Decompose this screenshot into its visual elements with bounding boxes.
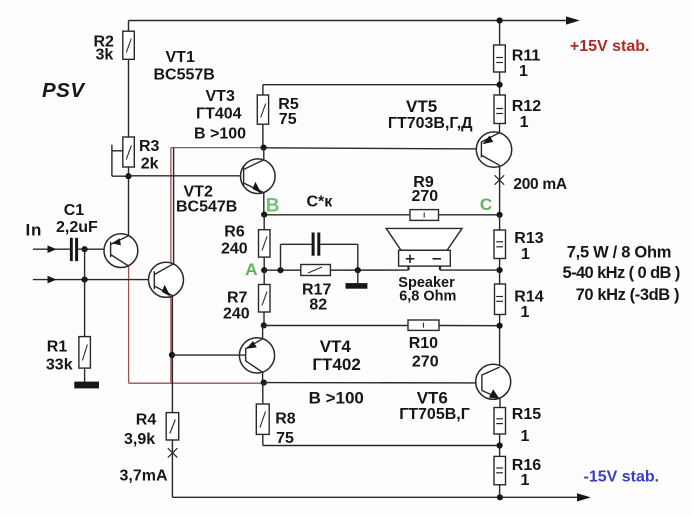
- svg-text:С*к: С*к: [307, 194, 334, 211]
- resistor R10: [408, 320, 439, 330]
- svg-text:BC547B: BC547B: [176, 199, 237, 216]
- svg-text:In: In: [26, 220, 43, 239]
- wire: VT4 emitter node down to R8: [262, 383, 264, 404]
- svg-text:1: 1: [521, 304, 530, 321]
- svg-text:BC557B: BC557B: [154, 66, 215, 83]
- svg-text:ГТ402: ГТ402: [312, 355, 360, 374]
- wire: R2 top stub from rail: [128, 21, 130, 32]
- svg-text:270: 270: [412, 188, 439, 205]
- resistor R15: [494, 408, 506, 435]
- svg-text:В >100: В >100: [309, 388, 364, 407]
- wire: feedback line red vertical from VT2 collector column: [129, 148, 264, 384]
- x mark 200mA: [495, 175, 505, 184]
- speaker cone: [386, 228, 462, 250]
- svg-text:70 kHz (-3dB ): 70 kHz (-3dB ): [576, 286, 680, 304]
- wire: VT3 emitter to node B: [263, 193, 265, 215]
- wire: VT5 base line: [264, 148, 482, 149]
- resistor R14: [495, 284, 506, 315]
- transistor VT5 (GT703): [476, 132, 511, 167]
- wire: node A row to right column: [264, 269, 408, 271]
- wire: R11 to R12: [499, 72, 501, 95]
- ground bar below R1: [74, 382, 99, 389]
- svg-text:PSV: PSV: [42, 79, 86, 102]
- svg-text:1: 1: [521, 472, 530, 489]
- svg-text:C: C: [480, 195, 492, 214]
- node R17 left: [277, 267, 283, 273]
- wire: input line 1: [33, 248, 70, 250]
- wire: VT4 collector row to R10 and right column: [264, 325, 408, 327]
- wire: R3 node to VT3 base: [129, 175, 244, 177]
- svg-text:VT4: VT4: [320, 337, 352, 356]
- svg-text:ГТ404: ГТ404: [196, 105, 242, 122]
- svg-text:240: 240: [223, 306, 250, 323]
- node below R13: [497, 267, 503, 273]
- svg-text:B: B: [266, 195, 280, 216]
- wire: B to R6: [263, 215, 265, 230]
- resistor R7: [259, 285, 271, 313]
- node below R14: [497, 323, 503, 329]
- wire: R10 to right column: [439, 325, 500, 327]
- svg-text:R13: R13: [514, 230, 543, 247]
- svg-text:R7: R7: [227, 290, 248, 307]
- node VT4 collector: [261, 322, 267, 328]
- wire: R5 bottom to node: [262, 124, 264, 147]
- wire: R13 to node: [499, 259, 501, 285]
- node top rail: [497, 17, 503, 23]
- svg-text:R10: R10: [409, 335, 438, 352]
- wire: VT2 emitter down to R4: [171, 296, 173, 413]
- wire: R4 bottom to x mark: [171, 440, 173, 497]
- capacitor C*k plates: [312, 233, 315, 256]
- right column: rail to R11: [499, 21, 501, 46]
- svg-text:5-40 kHz ( 0 dB ): 5-40 kHz ( 0 dB ): [563, 264, 680, 282]
- capacitor C*k branch left leg: [280, 244, 282, 270]
- svg-text:R4: R4: [136, 412, 157, 429]
- node R11/R12: [497, 82, 503, 88]
- wire: C1 to VT1 base: [78, 248, 111, 250]
- resistor R9: [410, 210, 439, 221]
- wire: R8 bottom to R15 node: [262, 434, 264, 445]
- wire: input line 2: [33, 279, 154, 281]
- svg-text:R15: R15: [512, 406, 541, 423]
- wire: R1 to ground: [84, 368, 86, 382]
- svg-text:R3: R3: [139, 138, 160, 155]
- transistor VT2 (BC547B): [149, 148, 184, 298]
- wire: VT6 emitter to R15: [499, 399, 501, 408]
- svg-text:A: A: [245, 260, 257, 279]
- svg-text:VT5: VT5: [406, 97, 437, 116]
- wire: R3 wiper: [111, 145, 113, 158]
- transistor VT3 (GT404): [240, 159, 275, 194]
- speaker legs: [407, 266, 409, 270]
- wire: VT4 base line: [172, 354, 246, 356]
- wire: top rail arrow: [566, 16, 580, 24]
- wire: R15 to R16: [499, 434, 501, 456]
- wire: -15V bottom rail: [172, 496, 578, 498]
- wire: R14 to VT6: [499, 315, 501, 368]
- svg-text:+15V stab.: +15V stab.: [570, 38, 650, 55]
- wire: VT3 collector up to node: [263, 148, 265, 160]
- wire: upper horizontal from R5 top to R11/R12 node: [263, 84, 500, 86]
- resistor R13: [494, 230, 506, 259]
- svg-text:2k: 2k: [141, 155, 159, 172]
- svg-text:ГТ703В,Г,Д: ГТ703В,Г,Д: [388, 115, 473, 132]
- svg-text:R8: R8: [275, 411, 296, 428]
- transistor VT6 (GT705): [476, 364, 511, 399]
- ground bar at R17: [346, 283, 368, 289]
- resistor R2: [123, 31, 135, 59]
- svg-text:VT6: VT6: [417, 389, 448, 408]
- svg-text:1: 1: [519, 63, 528, 80]
- resistor R5: [257, 95, 268, 124]
- svg-text:VT1: VT1: [166, 49, 195, 66]
- svg-text:R14: R14: [514, 288, 543, 305]
- node bottom rail: [497, 494, 503, 500]
- resistor R11: [494, 45, 506, 72]
- svg-text:240: 240: [221, 240, 248, 257]
- wire: A to R7: [263, 270, 265, 284]
- node below R15: [497, 442, 503, 448]
- svg-text:3,9k: 3,9k: [124, 431, 155, 448]
- resistor R6: [259, 230, 271, 257]
- svg-text:200 mA: 200 mA: [513, 176, 566, 193]
- svg-text:-15V stab.: -15V stab.: [584, 468, 660, 485]
- wire: stub to ground bar: [357, 270, 359, 283]
- resistor R3: [123, 137, 135, 167]
- resistor R12: [494, 95, 505, 124]
- svg-text:6,8 Ohm: 6,8 Ohm: [399, 289, 456, 305]
- wire: VT5 collector to x mark and node C: [499, 165, 501, 215]
- resistor R16: [494, 456, 506, 484]
- svg-text:R6: R6: [224, 224, 245, 241]
- svg-text:C1: C1: [64, 202, 85, 219]
- capacitor C*k right leg: [320, 243, 358, 245]
- wire: R3 bottom to VT1: [128, 167, 130, 236]
- svg-text:82: 82: [309, 296, 327, 313]
- speaker minus terminal: [433, 258, 442, 260]
- wire: node B to R9: [264, 214, 410, 216]
- node VT4 base junction: [169, 352, 175, 358]
- node B junction: [261, 212, 267, 218]
- svg-text:7,5 W / 8 Ohm: 7,5 W / 8 Ohm: [567, 244, 671, 262]
- svg-text:33k: 33k: [46, 357, 73, 374]
- resistor R1: [79, 337, 91, 369]
- node A junction: [261, 267, 267, 273]
- node R17 right: [355, 267, 361, 273]
- resistor R17: [301, 265, 331, 276]
- wire: R7 to VT4 collector node: [263, 312, 265, 325]
- svg-text:75: 75: [276, 430, 294, 447]
- svg-text:3k: 3k: [96, 47, 114, 64]
- wire: R12 to VT5: [499, 124, 501, 133]
- wire: VT4 emitter stub: [262, 372, 264, 382]
- input arrow 2: [48, 276, 57, 284]
- svg-text:75: 75: [279, 111, 297, 128]
- svg-text:VT3: VT3: [206, 88, 235, 105]
- wire: +15V top rail: [129, 20, 568, 22]
- svg-text:R12: R12: [512, 98, 541, 115]
- transistor VT4 (GT402): [239, 338, 274, 373]
- svg-text:2,2uF: 2,2uF: [56, 219, 98, 236]
- svg-text:R1: R1: [47, 339, 68, 356]
- node VT4 emitter: [261, 380, 267, 386]
- svg-text:270: 270: [412, 353, 439, 370]
- resistor R4: [166, 413, 179, 440]
- svg-text:1: 1: [521, 246, 530, 263]
- svg-text:1: 1: [520, 114, 529, 131]
- wire: R2 to R3: [128, 59, 130, 137]
- wire: VT4 collector stub: [262, 325, 264, 338]
- input arrow 1: [48, 245, 57, 253]
- wire: R9 to node C: [439, 214, 500, 216]
- wire: bottom rail arrow: [577, 493, 591, 501]
- svg-text:ГТ705В,Г: ГТ705В,Г: [399, 406, 470, 423]
- svg-text:В >100: В >100: [194, 126, 246, 143]
- node R3 junction: [125, 173, 131, 179]
- resistor R8: [256, 404, 269, 434]
- svg-text:1: 1: [521, 428, 530, 445]
- speaker plus terminal: [406, 255, 441, 263]
- x mark 3.7mA: [168, 448, 178, 457]
- svg-text:3,7mA: 3,7mA: [120, 467, 168, 484]
- node input top: [82, 246, 88, 252]
- node input bottom: [82, 277, 88, 283]
- wire: VT6 base line: [263, 382, 482, 384]
- capacitor C1 plates: [70, 238, 73, 261]
- wire: R16 to bottom rail: [499, 485, 501, 498]
- speaker box: [399, 250, 451, 266]
- wire: input node down to R1: [84, 249, 86, 336]
- transistor VT1 (BC557B): [104, 234, 138, 268]
- node C junction: [497, 212, 503, 218]
- wire: R6 to node A: [263, 257, 265, 270]
- node VT3 collector / R5 / VT5 base: [261, 145, 267, 151]
- wire: C to R13: [499, 215, 501, 230]
